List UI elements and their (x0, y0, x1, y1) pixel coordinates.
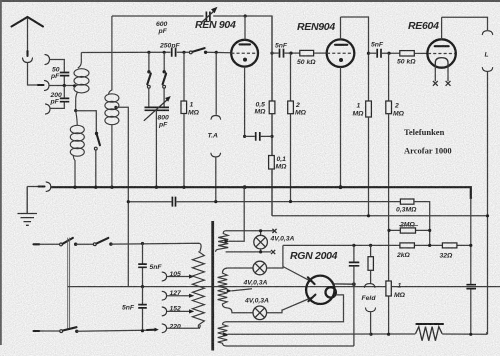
wire switch2 to transformer top (111, 243, 201, 251)
wire V3 anode to L jack (442, 17, 488, 30)
wire lamp3 row (228, 308, 253, 313)
plug 220 (147, 329, 155, 331)
wire antenna down lead (27, 18, 29, 51)
wire 5nF to 50k (284, 52, 299, 54)
x mark sec1 bottom (271, 250, 275, 254)
jack socket A1 (45, 55, 50, 65)
terminal L upper (482, 31, 492, 35)
lamp La1 (254, 229, 268, 253)
terminal TA upper (211, 116, 221, 120)
wire 50k to V2 (314, 52, 327, 54)
wire TA branch (215, 52, 217, 201)
wire to 220 plug (77, 330, 147, 331)
capacitor 250pF (172, 48, 176, 57)
wire junction to 200pF to jack A3 (50, 86, 64, 109)
resistor 50k grid2 (300, 50, 314, 56)
jack socket bus (46, 182, 51, 191)
capacitor bus bypass right (470, 285, 472, 335)
resistor 32 Ohm (442, 243, 457, 248)
resistor 50k grid3 (400, 51, 415, 56)
scan noise overlay (0, 0, 1, 1)
wire jack A2 to junction (49, 85, 74, 87)
wire sec1 center tap (224, 239, 229, 243)
wire RGN anode loop to HV winding (222, 295, 343, 325)
node cathode cap junctions (243, 135, 246, 138)
wire RGN anode to cap node (333, 283, 354, 285)
terminal L lower (482, 68, 492, 72)
lamp La2 (253, 261, 267, 275)
wire right edge down (487, 72, 489, 335)
node coil tap (73, 84, 76, 87)
antenna input plug (38, 84, 44, 86)
lamp La3 (253, 306, 267, 320)
border top (0, 0, 500, 2)
capacitor 5nF coupling1 (280, 49, 284, 58)
resistor zigzag speaker (416, 327, 443, 341)
mechanical link (68, 238, 70, 330)
node y215.8 dots (367, 214, 370, 217)
ground bus (51, 187, 471, 199)
node y201.5 ends (127, 200, 130, 203)
node coil L1 bottom junction (74, 109, 77, 112)
node bottom dots (369, 333, 372, 336)
wire long middle line y286.6 (68, 286, 500, 288)
switch mains top 2 (93, 243, 96, 246)
border left (0, 0, 2, 345)
node antenna junction (63, 84, 66, 87)
wire to switch (39, 243, 59, 245)
wire 800pF branch left (148, 52, 150, 71)
x mark sec1 top (272, 229, 276, 233)
resistor 2M grid V2 (290, 53, 292, 101)
wire sec3 center tap arrow (223, 332, 228, 336)
wire line y201.5 (128, 201, 400, 203)
wire top line y16 (112, 16, 272, 216)
wire line y215.8 (272, 215, 488, 217)
coil L3 (70, 111, 84, 187)
wire sec1 bottom line (226, 251, 271, 253)
wire 50k2 to V3 (414, 52, 427, 54)
wire Feld lower to bottom (370, 312, 372, 335)
wire 800pF to bus (155, 110, 157, 187)
terminal Feld lower (366, 308, 376, 312)
wire coil L2 tap to x128 drop (116, 107, 128, 286)
jack socket A3 (46, 104, 51, 114)
tube V3 RE604 (427, 17, 455, 81)
wire DC+ line y245.4 (283, 244, 471, 246)
tube V4 RGN2004 (306, 276, 336, 304)
tube V1 REN904 (231, 16, 258, 136)
wire primary bottom curve (198, 325, 200, 328)
x mark filament right (446, 81, 451, 86)
resistor 0,5M (271, 16, 273, 101)
wire 0,5M to cap junction (271, 114, 273, 156)
resistor 1M TA (183, 52, 185, 101)
resistor 2M row (389, 229, 430, 231)
node bus dots (73, 186, 76, 189)
wire sec2 center tap arrow (227, 289, 232, 293)
socket 220 (162, 324, 166, 333)
wire V2 anode top loop (341, 17, 369, 101)
capacitor 800pF variable tuning (144, 96, 171, 121)
capacitor filter (353, 245, 355, 262)
socket 127 (162, 291, 166, 300)
wire lamp2 to RGN filament (267, 266, 312, 282)
socket 152 (162, 307, 166, 316)
wire ground to bus plug (27, 186, 38, 188)
antenna (12, 17, 44, 27)
capacitor 5nF coupling2 (377, 49, 381, 58)
socket 105 (162, 272, 166, 281)
ground (26, 187, 28, 214)
wire 800pF branch right (163, 52, 165, 71)
wire antenna to input jack (28, 63, 39, 86)
node anode line tube1 on top line (244, 14, 247, 17)
node dots on grid line (147, 51, 150, 54)
coil L2 grid (105, 16, 119, 187)
resistor 1M anode V2 (366, 101, 372, 117)
wire V1 anode junction to 5nF (270, 52, 273, 55)
terminal Feld upper (365, 284, 375, 288)
node 5nF2 in (367, 52, 370, 55)
wire junction to switch branch (76, 111, 97, 133)
wire cap node down to HV bottom (222, 284, 353, 346)
wire 0,3M to corner down (414, 202, 430, 246)
transformer core (211, 221, 214, 351)
transformer sec2 filament winding (218, 268, 228, 308)
wire 50pF to junction (63, 76, 65, 85)
wire DC+ corner down (282, 245, 284, 266)
capacitor 600pF variable (201, 7, 218, 23)
capacitor 50pF (60, 73, 70, 76)
node DC+ dots (352, 244, 355, 247)
capacitor cathode (245, 135, 272, 137)
capacitor series on y201.5 (172, 197, 175, 207)
mains plug top (34, 243, 40, 245)
wire lamp2 row (228, 267, 253, 269)
switch S3 left (147, 70, 150, 73)
switch S1 wave change (95, 132, 98, 135)
switch mains bottom (60, 330, 63, 333)
transformer sec1 filament winding (216, 231, 229, 252)
wire 220 to primary bottom (167, 325, 200, 328)
coil L1 antenna (74, 53, 89, 111)
wire switch S1 to bus (95, 150, 97, 187)
wire jack A1 to 50pF (50, 60, 65, 72)
jack socket A2 (45, 81, 50, 91)
resistor 2k (400, 243, 415, 248)
wire sec1 top line (226, 230, 275, 232)
wire 5nF2 to 50k2 (382, 52, 400, 54)
bar over zigzag (416, 323, 443, 325)
mains plug bottom (34, 330, 40, 332)
node 5nF top tap (141, 242, 144, 245)
branch Feld (370, 245, 372, 256)
resistor 0,3M (400, 199, 414, 204)
capacitor 200pF (60, 98, 70, 101)
wire to switch 2 (76, 243, 94, 245)
resistor 1M output (386, 281, 391, 296)
capacitor 5nF mains lower (142, 287, 144, 331)
transformer primary winding (192, 252, 204, 326)
antenna plug (26, 51, 28, 56)
node 5nF mid (141, 285, 144, 288)
switch mains top (60, 243, 63, 246)
x mark filament left (433, 81, 438, 86)
terminal TA lower (211, 153, 221, 157)
wire lamp3 to RGN filament (267, 297, 313, 313)
capacitor 5nF mains upper (142, 244, 144, 287)
resistor 2M grid V3 (388, 53, 390, 101)
wire bottom line y334.3 (228, 332, 487, 334)
node coil L2 tap (114, 106, 117, 109)
transformer sec3 HV winding (218, 325, 228, 344)
wire grid line y52.3 (81, 51, 230, 53)
switch S4 right (163, 70, 166, 73)
resistor 0,1M (269, 156, 275, 170)
tube V2 REN904 (327, 17, 355, 187)
antenna socket arc (23, 58, 33, 63)
switch S2 grid (189, 51, 192, 54)
